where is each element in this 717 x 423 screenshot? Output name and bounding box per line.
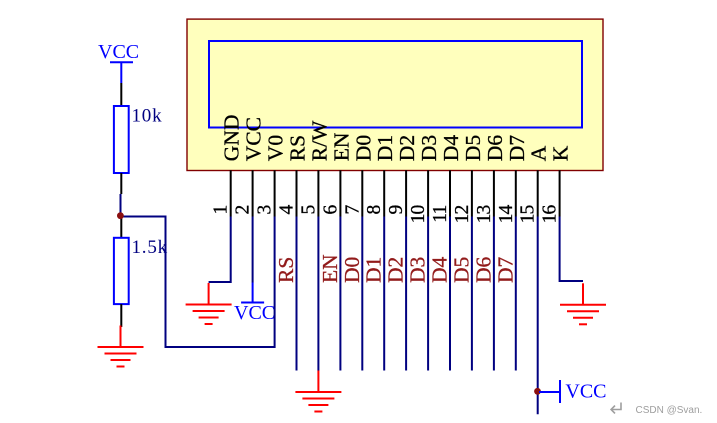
pin 2 stub	[252, 170, 254, 216]
ground divider	[98, 326, 144, 367]
resistor R1 10k	[114, 106, 129, 173]
wire VCC to R1	[120, 83, 122, 106]
svg-text:14: 14	[496, 204, 517, 223]
svg-text:VCC: VCC	[242, 117, 266, 161]
wire pin8	[383, 217, 385, 371]
svg-text:D5: D5	[461, 135, 485, 161]
svg-text:D5: D5	[449, 257, 473, 283]
power VCC pin15	[539, 380, 560, 403]
wire pin14	[515, 217, 517, 371]
pin 14 stub	[515, 170, 517, 216]
svg-text:D3: D3	[417, 135, 441, 161]
svg-text:D7: D7	[505, 135, 529, 162]
svg-text:2: 2	[233, 205, 254, 214]
svg-text:D1: D1	[362, 257, 386, 283]
svg-text:3: 3	[255, 205, 276, 214]
svg-text:D4: D4	[439, 135, 463, 162]
svg-text:VCC: VCC	[234, 302, 275, 324]
ground pin5	[295, 371, 341, 412]
wire divider tap to V0	[121, 217, 275, 348]
wire pin6	[339, 217, 341, 371]
svg-text:D6: D6	[483, 135, 507, 162]
wire R1 to R2	[120, 173, 122, 194]
wire pin5 R/W to ground	[317, 217, 319, 371]
svg-text:D2: D2	[384, 257, 408, 283]
pin 3 stub	[274, 170, 276, 216]
svg-text:10k: 10k	[132, 105, 163, 126]
watermark	[611, 403, 621, 414]
svg-text:D0: D0	[351, 135, 375, 161]
junction divider	[117, 212, 124, 219]
svg-text:16: 16	[540, 204, 561, 223]
pin 6 stub	[339, 170, 341, 216]
pin 1 stub	[230, 170, 232, 216]
svg-text:A: A	[527, 145, 551, 161]
wire pin15 A	[537, 217, 539, 415]
power VCC pin2	[241, 283, 264, 303]
wire pin7	[361, 217, 363, 371]
svg-text:CSDN @Svan.: CSDN @Svan.	[636, 405, 703, 416]
svg-text:D0: D0	[340, 257, 364, 283]
pin 8 stub	[383, 170, 385, 216]
svg-text:EN: EN	[318, 254, 342, 283]
wire R2 to ground	[120, 304, 122, 327]
svg-text:R/W: R/W	[307, 120, 331, 161]
wire pin4	[296, 217, 298, 371]
LCD module body U1	[187, 19, 603, 170]
svg-text:VCC: VCC	[565, 380, 606, 402]
LCD display window	[209, 41, 582, 128]
wire pin3 V0	[274, 217, 276, 349]
svg-text:D3: D3	[406, 257, 430, 283]
wire pin1 GND to ground	[209, 217, 231, 283]
pin 15 stub	[537, 170, 539, 216]
pin 10 stub	[427, 170, 429, 216]
pin 4 stub	[296, 170, 298, 216]
svg-text:8: 8	[364, 205, 385, 214]
junction pin15	[534, 388, 541, 395]
svg-text:13: 13	[474, 205, 495, 223]
svg-text:10: 10	[408, 205, 429, 223]
svg-text:4: 4	[277, 204, 298, 214]
wire pin16 K to ground	[560, 217, 583, 282]
svg-text:7: 7	[342, 204, 363, 214]
svg-text:D4: D4	[428, 256, 452, 283]
svg-text:D7: D7	[493, 256, 517, 283]
svg-text:5: 5	[298, 205, 319, 214]
pin 12 stub	[471, 170, 473, 216]
ground pin16	[560, 283, 606, 324]
svg-text:V0: V0	[264, 135, 288, 161]
resistor R2 1.5k	[114, 238, 129, 304]
svg-text:1.5k: 1.5k	[132, 237, 168, 258]
svg-text:VCC: VCC	[98, 41, 139, 63]
svg-text:D1: D1	[373, 135, 397, 161]
svg-text:GND: GND	[220, 115, 244, 162]
svg-text:D6: D6	[471, 256, 495, 283]
svg-text:RS: RS	[286, 135, 310, 161]
pin 9 stub	[405, 170, 407, 216]
svg-text:11: 11	[430, 205, 451, 222]
pin 5 stub	[317, 170, 319, 216]
wire pin12	[471, 217, 473, 371]
svg-text:12: 12	[452, 205, 473, 223]
ground pin1	[186, 283, 232, 324]
pin 7 stub	[361, 170, 363, 216]
svg-text:15: 15	[518, 205, 539, 223]
svg-text:RS: RS	[274, 257, 298, 283]
wire pin2 to VCC	[252, 217, 254, 283]
wire pin11	[449, 217, 451, 371]
pin 13 stub	[493, 170, 495, 216]
svg-text:D2: D2	[395, 135, 419, 161]
svg-text:EN: EN	[329, 132, 353, 161]
pin 11 stub	[449, 170, 451, 216]
wire pin9	[405, 217, 407, 371]
wire pin13	[493, 217, 495, 371]
pin 16 stub	[559, 170, 561, 216]
svg-text:9: 9	[386, 205, 407, 214]
wire pin10	[427, 217, 429, 371]
svg-text:K: K	[549, 145, 573, 161]
svg-text:1: 1	[211, 205, 232, 214]
svg-text:6: 6	[320, 204, 341, 214]
